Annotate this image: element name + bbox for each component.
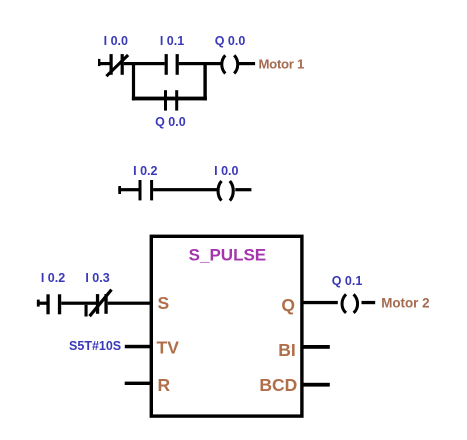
coil Q0.1 xyxy=(342,294,358,313)
svg-text:S: S xyxy=(158,293,170,313)
contact Q0.0 NO parallel xyxy=(164,90,178,110)
coil Q0.0 xyxy=(222,55,238,73)
svg-text:I 0.3: I 0.3 xyxy=(85,271,109,285)
wire rung1 segment A xyxy=(124,62,165,65)
svg-text:BCD: BCD xyxy=(259,375,297,395)
wire rung2 right xyxy=(235,188,251,191)
svg-text:I 0.1: I 0.1 xyxy=(160,34,184,48)
svg-text:Q 0.1: Q 0.1 xyxy=(332,274,363,288)
svg-text:Q 0.0: Q 0.0 xyxy=(155,115,186,129)
svg-text:TV: TV xyxy=(157,337,180,357)
svg-text:I 0.2: I 0.2 xyxy=(133,164,157,178)
svg-text:S_PULSE: S_PULSE xyxy=(189,245,266,264)
contact I0.0 NC xyxy=(106,54,128,76)
contact I0.2 rung3 NO xyxy=(46,294,61,314)
wire Q output xyxy=(302,301,338,304)
svg-text:S5T#10S: S5T#10S xyxy=(69,339,121,353)
svg-text:Q: Q xyxy=(281,295,295,315)
wire BCD stub xyxy=(302,383,330,387)
svg-text:I 0.0: I 0.0 xyxy=(214,164,238,178)
wire TV input xyxy=(125,345,151,349)
wire after coil Q0.1 xyxy=(362,301,376,304)
node branch junction right xyxy=(203,62,206,100)
contact I0.1 NO xyxy=(165,54,179,75)
contact I0.3 NC xyxy=(90,290,112,317)
timer block U1 S_PULSE xyxy=(151,236,302,416)
svg-text:Motor 1: Motor 1 xyxy=(259,56,305,71)
wire rung2 left stub xyxy=(118,186,138,194)
wire rung3 to S input xyxy=(108,302,151,305)
node branch junction left xyxy=(132,62,135,100)
wire rung1 to Motor 1 xyxy=(239,62,256,65)
wire junction stub down xyxy=(85,305,88,317)
svg-text:BI: BI xyxy=(278,340,296,360)
svg-text:R: R xyxy=(158,375,171,395)
wire rung1 left stub xyxy=(98,59,110,66)
wire BI stub xyxy=(302,345,330,349)
coil I0.0 rung2 xyxy=(218,181,233,201)
wire rung3 segment xyxy=(61,302,96,305)
svg-text:Motor 2: Motor 2 xyxy=(381,295,429,310)
wire rung2 middle xyxy=(153,188,217,191)
wire rung1 segment B xyxy=(179,62,221,65)
svg-text:I 0.0: I 0.0 xyxy=(104,34,128,48)
wire parallel branch bottom xyxy=(132,97,207,101)
wire rung3 left stub xyxy=(37,300,47,307)
svg-text:I 0.2: I 0.2 xyxy=(41,271,65,285)
contact I0.2 rung2 NO xyxy=(139,180,154,200)
svg-text:Q 0.0: Q 0.0 xyxy=(215,34,246,48)
wire R input stub xyxy=(125,382,151,385)
